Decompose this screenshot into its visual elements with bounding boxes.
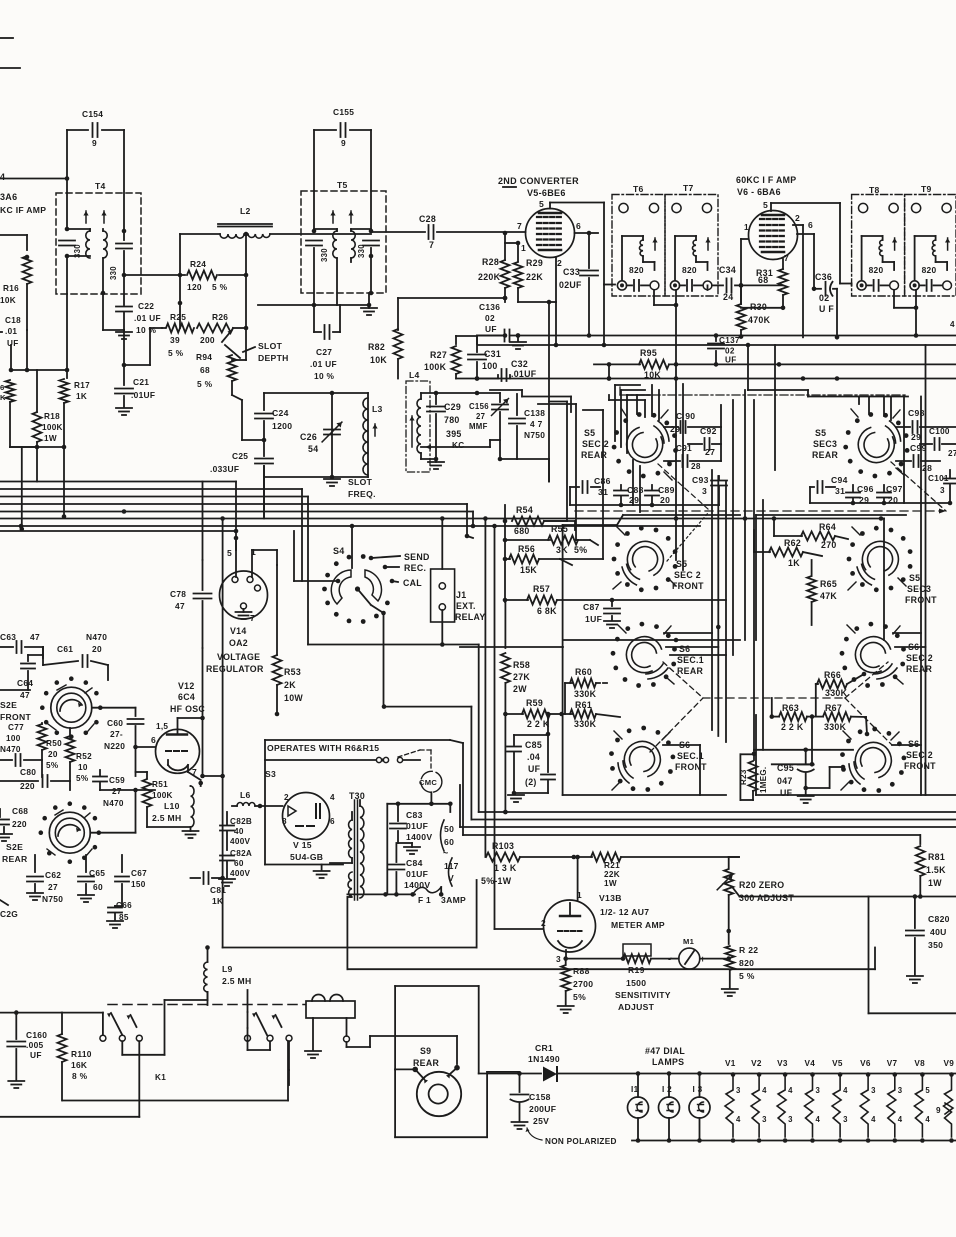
svg-text:120: 120 <box>187 282 202 292</box>
svg-text:C156: C156 <box>469 402 489 411</box>
svg-text:1: 1 <box>521 243 526 253</box>
svg-text:C22: C22 <box>138 301 154 311</box>
wire L2 left <box>180 233 220 235</box>
svg-text:1,5: 1,5 <box>156 722 168 731</box>
resistor R60 <box>565 682 572 684</box>
svg-text:L10: L10 <box>164 801 180 811</box>
svg-text:3A6: 3A6 <box>0 192 17 202</box>
wire power bottom <box>347 968 875 970</box>
svg-text:6: 6 <box>330 817 335 826</box>
svg-text:02: 02 <box>725 347 735 356</box>
svg-text:50: 50 <box>444 824 454 834</box>
switch S4 contact cal <box>390 579 395 584</box>
transformer T30 primary <box>360 806 364 898</box>
svg-text:R103: R103 <box>492 841 514 851</box>
svg-text:R56: R56 <box>518 544 535 554</box>
transformer T5 box <box>301 191 386 293</box>
dash dot gang S5 diag <box>658 464 708 509</box>
heater V2 <box>757 1072 762 1077</box>
tube V14 <box>220 571 268 619</box>
vert x556 down <box>555 302 557 345</box>
wire S2E front edge <box>0 689 30 691</box>
svg-text:R24: R24 <box>190 259 206 269</box>
resistor R23 <box>753 754 755 760</box>
svg-text:V12: V12 <box>178 681 195 691</box>
svg-text:2 2 K: 2 2 K <box>527 719 550 729</box>
resistor R64 <box>774 535 802 537</box>
svg-text:4: 4 <box>925 1115 930 1124</box>
svg-text:1500: 1500 <box>626 978 646 988</box>
switch K1a wires <box>121 1041 123 1055</box>
svg-text:C99: C99 <box>910 443 927 453</box>
svg-text:330: 330 <box>73 244 82 258</box>
wire vert x676 long <box>675 379 677 561</box>
wire R18 down <box>36 447 38 482</box>
svg-text:C92: C92 <box>700 426 717 436</box>
resistor R25 <box>162 327 165 329</box>
svg-text:C25: C25 <box>232 451 248 461</box>
svg-text:METER AMP: METER AMP <box>611 920 665 930</box>
resistor R26 potentiometer <box>197 324 233 333</box>
svg-text:60: 60 <box>444 837 454 847</box>
svg-text:U F: U F <box>819 304 834 314</box>
svg-text:V: V <box>448 873 454 883</box>
staircase R56 feed <box>602 410 604 559</box>
svg-text:REAR: REAR <box>906 664 932 674</box>
transformer T30 secondary <box>349 820 352 858</box>
wire C154 right <box>123 130 125 231</box>
svg-text:.01 UF: .01 UF <box>134 313 161 323</box>
svg-text:1UF: 1UF <box>585 614 602 624</box>
svg-text:100K: 100K <box>152 791 173 800</box>
svg-text:10 %: 10 % <box>314 371 335 381</box>
svg-text:47: 47 <box>20 690 30 700</box>
wire bus v6 <box>202 482 204 561</box>
svg-text:02: 02 <box>819 293 829 303</box>
wire C24 top <box>264 392 368 394</box>
svg-text:330: 330 <box>109 266 118 280</box>
wire S9 left <box>395 1068 415 1070</box>
svg-text:C 90: C 90 <box>676 411 695 421</box>
resistor R21 <box>574 856 592 858</box>
left rail S5 <box>504 505 506 600</box>
svg-text:22K: 22K <box>526 272 543 282</box>
svg-text:K: K <box>0 393 6 402</box>
svg-text:.033UF: .033UF <box>210 464 239 474</box>
svg-text:R60: R60 <box>575 667 592 677</box>
wire R17-R18 bottom <box>10 446 64 448</box>
svg-text:SEC 2: SEC 2 <box>582 439 609 449</box>
heater V1 <box>731 1072 736 1077</box>
wire C81 down <box>222 878 224 948</box>
svg-text:C32: C32 <box>511 359 528 369</box>
wire S2E rear to V12 <box>136 789 156 791</box>
bus mid1 <box>479 811 956 813</box>
wire R62 left <box>753 530 755 552</box>
wire into front wafer2 <box>590 540 598 545</box>
svg-text:20: 20 <box>660 495 670 505</box>
svg-text:T8: T8 <box>869 185 880 195</box>
wire pin3 rail <box>566 958 623 960</box>
svg-text:02UF: 02UF <box>559 280 582 290</box>
svg-text:5 %: 5 % <box>168 348 184 358</box>
svg-text:R25: R25 <box>170 312 186 322</box>
transformer T5 primary cap <box>313 191 315 229</box>
svg-text:4: 4 <box>736 1115 741 1124</box>
svg-text:HF OSC: HF OSC <box>170 704 205 714</box>
resistor R55 <box>505 539 550 541</box>
wire C156 down <box>489 440 491 447</box>
svg-text:.01UF: .01UF <box>131 390 155 400</box>
wire R28 bottom <box>504 298 506 302</box>
svg-text:200: 200 <box>200 335 215 345</box>
switch K1a <box>100 1035 106 1041</box>
svg-text:V2: V2 <box>751 1059 762 1068</box>
svg-text:1K: 1K <box>76 392 87 401</box>
svg-text:29: 29 <box>911 432 921 442</box>
switch S4 contact rec <box>383 565 388 570</box>
svg-text:.01UF: .01UF <box>511 369 537 379</box>
wire T4 sec bottom to gnd <box>102 293 104 330</box>
svg-text:SEC 2: SEC 2 <box>906 653 933 663</box>
bus line 5 <box>0 511 473 513</box>
svg-text:FREQ.: FREQ. <box>348 489 376 499</box>
svg-text:1N1490: 1N1490 <box>528 1054 560 1064</box>
wire R94 to C24 <box>241 400 243 440</box>
svg-text:T6: T6 <box>633 184 644 194</box>
svg-text:4: 4 <box>871 1115 876 1124</box>
svg-text:R51: R51 <box>152 780 168 789</box>
resistor R82 <box>397 298 399 330</box>
transformer T5 secondary coil <box>351 231 355 258</box>
wire J1 bus <box>308 644 479 646</box>
svg-text:29: 29 <box>670 424 680 434</box>
capacitor C31 <box>476 336 478 352</box>
svg-text:V1: V1 <box>725 1059 736 1068</box>
svg-text:C820: C820 <box>928 914 950 924</box>
tube S2E FRONT pin dots <box>44 691 49 696</box>
wire V4 plate to T4 <box>0 178 67 180</box>
capacitor C34 <box>707 285 709 290</box>
svg-text:27: 27 <box>948 449 956 458</box>
bus mid3 <box>460 826 956 828</box>
transformer T6 <box>612 195 665 297</box>
resistor R28 <box>504 233 506 260</box>
svg-text:1K: 1K <box>788 558 800 568</box>
svg-text:780: 780 <box>444 415 460 425</box>
svg-text:7: 7 <box>429 240 434 250</box>
svg-text:C60: C60 <box>107 718 123 728</box>
capacitor C820 <box>914 897 916 929</box>
svg-text:24: 24 <box>723 292 733 302</box>
svg-text:3: 3 <box>843 1115 848 1124</box>
svg-text:2K: 2K <box>284 680 296 690</box>
svg-text:S2E: S2E <box>6 842 23 852</box>
wafer stub S6sec1f <box>614 731 622 739</box>
svg-text:4: 4 <box>843 1086 848 1095</box>
svg-text:3: 3 <box>702 486 707 496</box>
wire bus to V14 <box>235 537 236 539</box>
svg-text:3: 3 <box>816 1086 821 1095</box>
svg-text:R53: R53 <box>284 667 301 677</box>
svg-text:470K: 470K <box>748 315 771 325</box>
wire right bus345 <box>478 344 956 346</box>
svg-text:5 %: 5 % <box>739 971 755 981</box>
svg-text:47: 47 <box>175 601 185 611</box>
svg-text:V3: V3 <box>777 1059 788 1068</box>
wire S5sec2 top <box>644 400 646 417</box>
capacitor C138 <box>516 394 518 415</box>
wire C31 top <box>476 335 478 338</box>
capacitor C24 <box>263 393 265 410</box>
wire into front wafer1 <box>574 521 576 530</box>
wire K1b up <box>247 990 249 1012</box>
resistor R110 <box>58 1034 67 1062</box>
svg-text:V8: V8 <box>914 1059 925 1068</box>
heater V4 <box>810 1072 815 1077</box>
svg-text:ADJUST: ADJUST <box>618 1002 655 1012</box>
heater V5 <box>838 1072 843 1077</box>
svg-text:2.5 MH: 2.5 MH <box>152 813 182 823</box>
svg-text:SLOT: SLOT <box>348 477 373 487</box>
svg-text:C31: C31 <box>484 349 501 359</box>
svg-text:1W: 1W <box>44 434 57 443</box>
svg-text:7: 7 <box>784 253 789 263</box>
lamp rail bottom <box>632 1140 956 1142</box>
svg-text:R65: R65 <box>820 579 837 589</box>
resistor R24 <box>180 274 185 276</box>
relay K1 coil <box>306 1001 355 1018</box>
wire bus v3 <box>235 482 237 532</box>
wafer stub S5sec2f <box>617 527 625 535</box>
svg-text:R110: R110 <box>71 1049 92 1059</box>
wire V12 plate right <box>202 648 204 776</box>
wire bus v8 <box>472 512 474 527</box>
svg-text:4: 4 <box>330 793 335 802</box>
svg-text:60: 60 <box>93 882 103 892</box>
svg-text:400V: 400V <box>230 837 251 846</box>
svg-text:27-: 27- <box>110 729 123 739</box>
transformer T30 core <box>354 800 356 900</box>
tube V6 <box>749 211 798 260</box>
svg-text:R61: R61 <box>575 700 592 710</box>
svg-text:S5: S5 <box>815 428 826 438</box>
svg-text:39: 39 <box>170 335 180 345</box>
staircase into S5sec2 <box>548 459 550 482</box>
wire V12 grid in <box>136 746 156 748</box>
svg-text:R67: R67 <box>825 703 842 713</box>
svg-text:C67: C67 <box>131 869 147 878</box>
svg-text:270: 270 <box>821 540 837 550</box>
switch S9 box <box>394 1069 396 1137</box>
resistor R59 <box>505 713 523 715</box>
svg-text:REAR: REAR <box>2 854 28 864</box>
svg-text:220K: 220K <box>478 272 501 282</box>
svg-text:C26: C26 <box>300 432 317 442</box>
svg-text:C36: C36 <box>815 272 832 282</box>
bus line 1 <box>0 481 236 483</box>
transformer T9 <box>905 195 956 297</box>
svg-text:4: 4 <box>0 172 5 182</box>
heater V7 <box>893 1072 898 1077</box>
bus y647 <box>460 646 563 648</box>
svg-text:C64: C64 <box>17 678 33 688</box>
svg-text:10 %: 10 % <box>136 325 157 335</box>
resistor R81 <box>919 835 921 844</box>
capacitor C29 <box>435 393 437 404</box>
svg-text:047: 047 <box>777 776 793 786</box>
svg-text:680: 680 <box>514 526 530 536</box>
svg-text:5%-1W: 5%-1W <box>481 876 512 886</box>
wire R20 tap <box>740 896 869 898</box>
resistor R65 <box>811 560 813 575</box>
svg-text:5%: 5% <box>574 545 587 555</box>
lamp rail top <box>638 1073 956 1075</box>
svg-text:R19: R19 <box>628 965 645 975</box>
svg-text:S9: S9 <box>420 1046 431 1056</box>
svg-text:FRONT: FRONT <box>675 762 707 772</box>
resistor R20 <box>728 857 730 868</box>
svg-text:C68: C68 <box>12 806 28 816</box>
wire R26 right <box>245 275 247 360</box>
svg-text:22K: 22K <box>604 870 620 879</box>
svg-text:10W: 10W <box>284 693 303 703</box>
wire T9 out down <box>915 308 917 336</box>
resistor R58 <box>504 602 506 648</box>
wire C95 top <box>754 749 853 751</box>
switch K1b wires <box>247 1028 249 1041</box>
transformer T4 box <box>56 193 141 294</box>
svg-text:3AMP: 3AMP <box>441 895 466 905</box>
svg-text:R16: R16 <box>3 284 19 293</box>
wire S6sec2r steps <box>893 632 921 634</box>
tube V14 gnd <box>243 609 245 612</box>
svg-text:S5: S5 <box>676 559 687 569</box>
ground C22 <box>116 331 132 333</box>
wire S5sec3r top stubs <box>883 397 885 417</box>
svg-text:C27: C27 <box>316 347 332 357</box>
svg-text:C154: C154 <box>82 109 103 119</box>
svg-text:R82: R82 <box>368 342 385 352</box>
wafer S6 SEC2 FRONT <box>849 742 891 784</box>
svg-text:C137: C137 <box>719 336 740 345</box>
transformer T4 secondary coil <box>103 231 107 258</box>
resistor R62 <box>754 551 770 553</box>
svg-text:10K: 10K <box>644 370 661 380</box>
svg-text:16K: 16K <box>71 1060 87 1070</box>
svg-text:820: 820 <box>922 265 937 275</box>
svg-text:UF: UF <box>485 324 497 334</box>
ground C83 <box>404 846 420 848</box>
svg-text:V9: V9 <box>944 1059 955 1068</box>
wire R66 left <box>815 684 817 717</box>
svg-text:C85: C85 <box>525 740 542 750</box>
svg-text:MMF: MMF <box>469 422 488 431</box>
svg-text:REAR: REAR <box>413 1058 439 1068</box>
wire into front wafer3 <box>560 559 572 565</box>
wire V6 plate to T8 <box>839 203 841 284</box>
resistor R54 <box>504 520 506 522</box>
resistor R51 <box>146 772 148 778</box>
svg-text:REAR: REAR <box>812 450 838 460</box>
wire bus J1 v <box>441 519 443 570</box>
svg-text:C138: C138 <box>524 408 545 418</box>
svg-text:1 3 K: 1 3 K <box>494 863 517 873</box>
svg-text:UF: UF <box>528 764 541 774</box>
svg-text:2 2 K: 2 2 K <box>781 722 804 732</box>
svg-text:27: 27 <box>705 447 715 457</box>
wire T8-T9 link <box>893 290 895 308</box>
svg-text:V7: V7 <box>887 1059 898 1068</box>
transformer T4 primary cap <box>66 193 68 229</box>
svg-text:4: 4 <box>898 1115 903 1124</box>
svg-text:R57: R57 <box>533 584 550 594</box>
svg-text:31: 31 <box>835 486 845 496</box>
verts middle col <box>632 460 634 505</box>
svg-text:5%: 5% <box>76 774 89 783</box>
wire dash gang S6 <box>663 662 703 698</box>
svg-text:SEC.1: SEC.1 <box>677 655 704 665</box>
wire V6 out link <box>741 307 783 309</box>
svg-text:20: 20 <box>48 750 58 759</box>
tube S2E FRONT <box>51 687 92 728</box>
svg-text:R28: R28 <box>482 257 499 267</box>
connector J1 box <box>431 569 455 622</box>
svg-text:R26: R26 <box>212 312 228 322</box>
svg-text:C158: C158 <box>529 1092 551 1102</box>
svg-text:7: 7 <box>517 221 522 231</box>
svg-text:5%: 5% <box>46 761 59 770</box>
svg-text:1200: 1200 <box>272 421 292 431</box>
svg-text:400V: 400V <box>230 869 251 878</box>
vert x904 <box>903 397 905 504</box>
dash gang S5 <box>891 462 946 511</box>
svg-text:8: 8 <box>282 817 287 826</box>
inductor L4 coil <box>417 399 421 453</box>
wire bus S4 v <box>351 526 353 568</box>
svg-text:5: 5 <box>227 548 232 558</box>
svg-text:C18: C18 <box>5 316 21 325</box>
svg-text:N750: N750 <box>42 894 63 904</box>
svg-text:.01: .01 <box>5 327 17 336</box>
ground C136 <box>517 336 519 342</box>
wire L4 bottom <box>421 458 436 460</box>
svg-text:C28: C28 <box>419 214 436 224</box>
svg-text:100: 100 <box>482 361 498 371</box>
svg-text:S3: S3 <box>265 769 276 779</box>
circle CMC <box>421 771 442 792</box>
tube V14 pins <box>232 577 238 583</box>
svg-text:1/2- 12 AU7: 1/2- 12 AU7 <box>600 907 649 917</box>
svg-text:F 1: F 1 <box>418 895 431 905</box>
wire R64 left <box>773 519 775 537</box>
wire C83 rail <box>387 803 450 805</box>
transformer T4 secondary cap <box>123 231 125 240</box>
staircase R54 feed <box>566 402 568 522</box>
ground C29 <box>428 461 444 463</box>
svg-text:6: 6 <box>151 735 156 745</box>
heater V9 <box>949 1072 954 1077</box>
svg-text:NON POLARIZED: NON POLARIZED <box>545 1137 617 1146</box>
svg-text:N750: N750 <box>524 430 545 440</box>
wire C85 top <box>547 714 549 735</box>
svg-text:REGULATOR: REGULATOR <box>206 664 264 674</box>
svg-text:N220: N220 <box>104 741 125 751</box>
svg-text:300 ADJUST: 300 ADJUST <box>739 893 794 903</box>
svg-text:40: 40 <box>234 827 244 836</box>
svg-text:V13B: V13B <box>599 893 622 903</box>
svg-text:T4: T4 <box>95 181 106 191</box>
